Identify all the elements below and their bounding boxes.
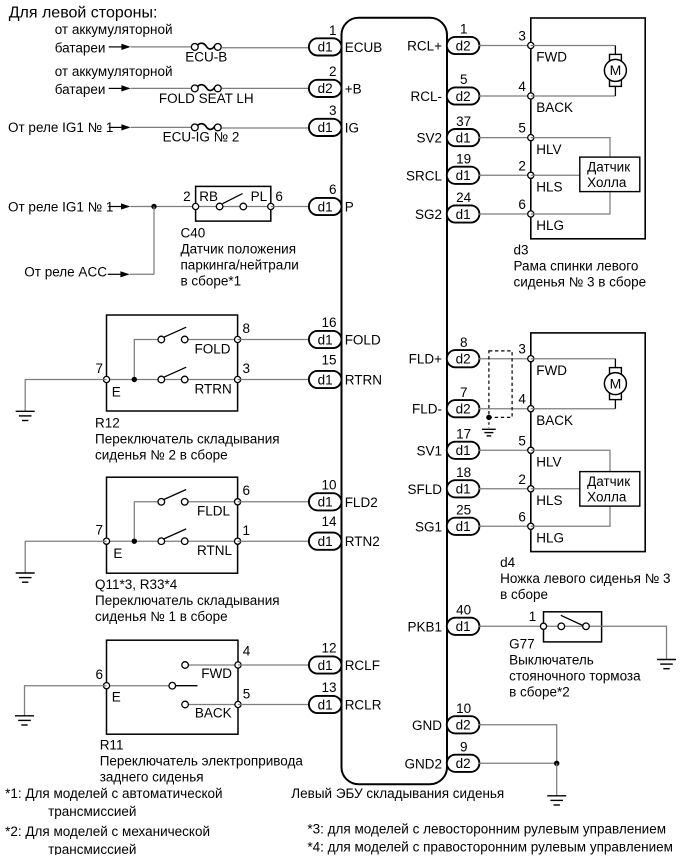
shield (dashed) around FLD+/FLD- — [489, 351, 512, 418]
fuse ECU-B — [191, 43, 221, 50]
svg-text:d1: d1 — [456, 130, 471, 145]
R12 ground wire — [25, 380, 106, 412]
svg-text:HLV: HLV — [536, 142, 561, 157]
svg-text:стояночного тормоза: стояночного тормоза — [509, 668, 641, 683]
G77 pin 1 node — [540, 623, 546, 629]
wire R12 pin3 to pin d1-15 — [238, 379, 309, 381]
svg-text:d1: d1 — [456, 168, 471, 183]
wire arrow to C40 pin 2 — [130, 206, 195, 208]
svg-text:от аккумуляторной: от аккумуляторной — [55, 64, 173, 79]
wire FLD+ to d4 pin 3 — [479, 358, 531, 360]
svg-text:2: 2 — [183, 189, 191, 204]
R11 wire FWD contact to pin 4 — [188, 664, 238, 666]
svg-text:От реле IG1 № 1: От реле IG1 № 1 — [8, 199, 113, 214]
svg-text:1: 1 — [460, 22, 468, 37]
d3 pin 6 node — [528, 211, 534, 217]
svg-text:2: 2 — [329, 64, 337, 79]
wire G77 to ground — [602, 626, 667, 659]
svg-text:RCL+: RCL+ — [407, 39, 442, 54]
R11 pin 6 node — [103, 683, 109, 689]
d4 pin 4 node — [528, 406, 534, 412]
wire SFLD to d4 pin 2 — [479, 488, 531, 490]
svg-text:14: 14 — [321, 514, 337, 529]
svg-text:17: 17 — [456, 427, 471, 442]
svg-text:Датчик: Датчик — [587, 474, 630, 489]
svg-text:FLD-: FLD- — [412, 402, 442, 417]
svg-text:2: 2 — [518, 158, 526, 173]
svg-text:25: 25 — [456, 503, 471, 518]
connector pin d2 (RCL+) — [447, 37, 480, 54]
wire Q11 pin1 to pin d1-14 — [238, 540, 309, 542]
svg-text:18: 18 — [456, 465, 471, 480]
svg-text:Холла: Холла — [587, 175, 627, 190]
connector pin d2 (GND) — [447, 716, 480, 733]
wire R12 pin8 to pin d1-16 — [238, 339, 309, 341]
Q11 FLDL blade — [164, 490, 186, 500]
svg-text:сиденья № 2 в сборе: сиденья № 2 в сборе — [95, 448, 228, 463]
svg-text:Ножка левого сиденья № 3: Ножка левого сиденья № 3 — [500, 571, 670, 586]
svg-text:2: 2 — [518, 472, 526, 487]
svg-text:FOLD SEAT LH: FOLD SEAT LH — [159, 91, 254, 106]
svg-text:15: 15 — [321, 352, 336, 367]
svg-text:7: 7 — [95, 523, 103, 538]
svg-text:E: E — [112, 384, 121, 399]
svg-text:6: 6 — [518, 509, 526, 524]
svg-text:HLS: HLS — [536, 180, 562, 195]
svg-text:FLDL: FLDL — [197, 504, 231, 519]
svg-text:RCL-: RCL- — [410, 89, 442, 104]
connector pin d1 (RCLF) — [309, 656, 342, 673]
wire C40 pin6 to pin d1-6 — [271, 206, 309, 208]
C40 contact PL — [240, 203, 247, 210]
connector pin d2 (+B) — [309, 80, 342, 97]
shield ground junction — [486, 415, 491, 420]
R12 wire FOLD contact to pin 8 — [188, 339, 238, 341]
svg-text:Переключатель складывания: Переключатель складывания — [95, 593, 280, 608]
ground (R12) — [16, 411, 35, 420]
svg-text:12: 12 — [321, 641, 336, 656]
shield ground stem — [488, 417, 490, 427]
svg-text:6: 6 — [518, 197, 526, 212]
svg-text:FOLD: FOLD — [195, 341, 231, 356]
svg-text:1: 1 — [243, 523, 251, 538]
svg-text:IG: IG — [345, 120, 359, 135]
svg-text:40: 40 — [456, 603, 471, 618]
connector pin d1 (SV2) — [447, 129, 480, 146]
wire SG2 to d3 pin 6 — [479, 213, 531, 215]
wire GND down to junction — [479, 725, 557, 764]
svg-text:GND2: GND2 — [404, 756, 442, 771]
battery feed arrow 2 — [109, 85, 131, 91]
G77 left contact — [558, 623, 565, 630]
wire R11 pin4 to pin d1-12 — [238, 664, 309, 666]
svg-text:d1: d1 — [456, 619, 471, 634]
Q11 junction — [132, 539, 137, 544]
svg-text:FOLD: FOLD — [345, 333, 381, 348]
seat leg d4 box — [531, 333, 645, 552]
svg-text:d2: d2 — [456, 402, 471, 417]
svg-text:ECUB: ECUB — [345, 40, 383, 55]
wire d3 pin2 to hall sensor left — [531, 174, 580, 176]
R12 junction — [132, 377, 137, 382]
svg-text:в сборе*1: в сборе*1 — [181, 273, 242, 288]
G77 switch blade — [561, 615, 583, 625]
svg-text:24: 24 — [456, 190, 472, 205]
R12 wire common to FOLD contact — [134, 340, 158, 380]
C40 pin 2 node — [193, 203, 199, 209]
Q11 wire RTNL contact to pin 1 — [188, 540, 238, 542]
svg-text:3: 3 — [329, 103, 337, 118]
hall sensor box (d4) — [580, 472, 640, 507]
svg-text:P: P — [345, 200, 354, 215]
R11 pin 4 node — [235, 662, 241, 668]
svg-text:M: M — [610, 375, 622, 391]
svg-text:d1: d1 — [318, 332, 333, 347]
ground (R11) — [15, 716, 34, 725]
R12 FOLD blade — [164, 327, 186, 337]
svg-text:6: 6 — [329, 182, 337, 197]
svg-text:батареи: батареи — [55, 82, 106, 97]
svg-text:SG2: SG2 — [415, 207, 442, 222]
connector pin d1 (RTN2) — [309, 533, 342, 550]
svg-text:BACK: BACK — [536, 100, 573, 115]
d3 pin 5 node — [528, 135, 534, 141]
fuse FOLD SEAT LH — [191, 85, 221, 92]
Q11 wire FLDL contact to pin 6 — [188, 501, 238, 503]
R12 pin 3 node — [235, 376, 241, 382]
svg-text:Выключатель: Выключатель — [509, 652, 594, 667]
svg-text:*1: Для моделей с автоматическ: *1: Для моделей с автоматической — [5, 786, 223, 801]
svg-text:RCLF: RCLF — [345, 658, 380, 673]
svg-text:d1: d1 — [456, 207, 471, 222]
wire through C40 — [196, 206, 271, 208]
R12 RTRN right contact — [181, 376, 188, 383]
wire junction down to ACC feed — [153, 207, 155, 275]
wire arrow2 to fuse FOLD SEAT LH — [131, 87, 191, 89]
connector pin d1 (RCLR) — [309, 696, 342, 713]
svg-text:Левый ЭБУ складывания сиденья: Левый ЭБУ складывания сиденья — [291, 786, 504, 801]
svg-text:E: E — [113, 546, 122, 561]
svg-text:d1: d1 — [318, 120, 333, 135]
svg-text:Переключатель складывания: Переключатель складывания — [95, 432, 280, 447]
wire GND2 to junction — [479, 762, 557, 764]
wire d4 pin5 to hall sensor top — [531, 450, 610, 471]
svg-text:d1: d1 — [318, 495, 333, 510]
Q11 RTNL right contact — [181, 538, 188, 545]
svg-text:HLS: HLS — [536, 493, 562, 508]
wire d3 pin4 to motor — [531, 95, 616, 97]
wire R11 pin5 to pin d1-13 — [238, 704, 309, 706]
d4 pin 5 node — [528, 447, 534, 453]
wire Q11 pin6 to pin d1-10 — [238, 501, 309, 503]
Q11 pin 1 node — [235, 538, 241, 544]
Q11 pin 6 node — [235, 499, 241, 505]
wire d4 pin6 to hall sensor bottom — [531, 506, 610, 526]
svg-text:FLD2: FLD2 — [345, 495, 378, 510]
Q11 wire pin7 to RTNL contacts — [107, 540, 189, 542]
connector pin d1 (SG2) — [447, 205, 480, 222]
svg-text:BACK: BACK — [195, 705, 232, 720]
svg-text:d2: d2 — [456, 38, 471, 53]
battery feed arrow 1 — [109, 44, 131, 50]
C40 pin 6 node — [268, 203, 274, 209]
R12 pin 8 node — [235, 336, 241, 342]
svg-text:FWD: FWD — [201, 666, 232, 681]
connector pin d1 (FLD2) — [309, 493, 342, 510]
svg-text:HLG: HLG — [536, 218, 564, 233]
R11 FWD contact — [182, 662, 189, 669]
d3 pin 3 node — [528, 42, 534, 48]
G77 right contact — [583, 623, 590, 630]
connector pin d1 (P) — [309, 198, 342, 215]
hall sensor box (d3) — [580, 157, 640, 192]
svg-text:5: 5 — [518, 433, 526, 448]
wire junction to ground — [556, 763, 558, 796]
svg-text:d1: d1 — [456, 519, 471, 534]
svg-text:10: 10 — [321, 477, 336, 492]
GND junction — [554, 761, 559, 766]
R11 wire pin6 to common contact — [107, 685, 170, 687]
wire RCL- to d3 pin 4 — [479, 95, 531, 97]
svg-text:PL: PL — [251, 189, 268, 204]
motor M (d3) — [604, 46, 626, 97]
C40 switch blade — [223, 194, 243, 204]
svg-text:d1: d1 — [318, 40, 333, 55]
svg-text:HLG: HLG — [536, 531, 564, 546]
svg-text:d4: d4 — [500, 555, 516, 570]
svg-text:от аккумуляторной: от аккумуляторной — [55, 22, 173, 37]
R12 wire pin7 to RTRN contacts — [107, 379, 189, 381]
svg-text:3: 3 — [518, 29, 526, 44]
connector pin d2 (RCL-) — [447, 87, 480, 104]
Q11 pin 7 node — [103, 538, 109, 544]
svg-text:SG1: SG1 — [415, 519, 442, 534]
wire FLD- to d4 pin 4 — [479, 408, 531, 410]
svg-text:SRCL: SRCL — [406, 168, 443, 183]
svg-text:SV1: SV1 — [416, 443, 442, 458]
svg-text:C40: C40 — [181, 225, 206, 240]
svg-text:d3: d3 — [514, 243, 529, 258]
R11 wire BACK contact to pin 5 — [188, 704, 238, 706]
svg-text:d1: d1 — [456, 443, 471, 458]
Q11 RTNL blade — [164, 529, 186, 539]
Q11 FLDL right contact — [181, 499, 188, 506]
Q11 FLDL left contact — [158, 499, 165, 506]
svg-text:в сборе*2: в сборе*2 — [509, 684, 570, 699]
svg-text:d2: d2 — [456, 756, 471, 771]
svg-text:*4: для моделей с правосторонн: *4: для моделей с правосторонним рулевым… — [307, 840, 673, 855]
wire SV2 to d3 pin 5 — [479, 137, 531, 139]
R12 FOLD left contact — [158, 336, 165, 343]
svg-text:10: 10 — [456, 701, 471, 716]
svg-text:PKB1: PKB1 — [407, 619, 442, 634]
svg-text:E: E — [112, 689, 121, 704]
d4 pin 2 node — [528, 486, 534, 492]
Q11 ground wire — [25, 541, 106, 573]
connector pin d1 (SFLD) — [447, 480, 480, 497]
svg-text:1: 1 — [529, 609, 537, 624]
svg-text:37: 37 — [456, 114, 471, 129]
svg-text:3: 3 — [243, 361, 251, 376]
svg-text:7: 7 — [95, 361, 103, 376]
connector pin d1 (FOLD) — [309, 331, 342, 348]
svg-text:4: 4 — [518, 392, 526, 407]
fold switch Q11/R33 box — [107, 477, 238, 573]
svg-text:RB: RB — [199, 189, 218, 204]
svg-text:RCLR: RCLR — [345, 698, 382, 713]
svg-text:d2: d2 — [456, 718, 471, 733]
svg-text:трансмиссией: трансмиссией — [48, 804, 136, 819]
svg-text:сиденья № 3 в сборе: сиденья № 3 в сборе — [514, 275, 647, 290]
ground (GND) — [547, 796, 566, 805]
svg-text:От реле IG1 № 1: От реле IG1 № 1 — [8, 120, 113, 135]
svg-text:RTRN: RTRN — [345, 373, 382, 388]
svg-text:батареи: батареи — [55, 40, 106, 55]
svg-text:5: 5 — [243, 687, 251, 702]
svg-text:M: M — [610, 62, 622, 78]
svg-text:8: 8 — [243, 321, 251, 336]
svg-text:R11: R11 — [100, 738, 124, 753]
ground (shield) — [482, 429, 496, 436]
svg-text:d1: d1 — [318, 534, 333, 549]
svg-text:13: 13 — [321, 680, 336, 695]
wire SG1 to d4 pin 6 — [479, 525, 531, 527]
svg-text:4: 4 — [518, 79, 526, 94]
connector pin d2 (GND2) — [447, 755, 480, 772]
wire through G77 — [544, 625, 602, 627]
wire d3 pin5 to hall sensor top — [531, 138, 610, 158]
svg-text:RTN2: RTN2 — [345, 534, 380, 549]
svg-text:3: 3 — [518, 342, 526, 357]
wire arrow1 to fuse ECU-B — [131, 46, 191, 48]
IG1 relay arrow — [109, 124, 131, 130]
svg-text:RTRN: RTRN — [195, 381, 232, 396]
wire PKB1 to G77 pin 1 — [479, 625, 544, 627]
connector pin d1 (RTRN) — [309, 371, 342, 388]
svg-text:d1: d1 — [318, 658, 333, 673]
wire fuse to pin d2-2 — [222, 87, 309, 89]
R11 blade (neutral) — [176, 685, 198, 687]
ground (G77) — [657, 660, 676, 669]
Q11 wire common to FLDL contact — [134, 502, 158, 541]
wire ACC arrow to junction — [130, 273, 154, 275]
svg-text:ECU-B: ECU-B — [185, 50, 227, 65]
svg-text:FWD: FWD — [536, 50, 567, 65]
svg-text:7: 7 — [460, 385, 468, 400]
svg-text:трансмиссией: трансмиссией — [48, 842, 136, 855]
connector pin d1 (SRCL) — [447, 167, 480, 184]
connector pin d1 (SG1) — [447, 518, 480, 535]
fold switch R12 box — [107, 315, 238, 411]
svg-text:*2: Для моделей с механической: *2: Для моделей с механической — [5, 824, 210, 839]
motor M (d4) — [604, 359, 626, 409]
svg-text:4: 4 — [243, 643, 251, 658]
svg-text:SV2: SV2 — [416, 131, 442, 146]
svg-text:Датчик положения: Датчик положения — [181, 241, 297, 256]
svg-text:1: 1 — [329, 23, 337, 38]
connector pin d1 (IG) — [309, 119, 342, 136]
R12 pin 7 node — [103, 376, 109, 382]
wire fuse to pin d1-3 — [222, 127, 309, 129]
svg-text:d1: d1 — [456, 482, 471, 497]
wire d4 pin3 to motor — [531, 358, 616, 360]
svg-text:*3: для моделей с левосторонни: *3: для моделей с левосторонним рулевым … — [307, 822, 666, 837]
connector pin d2 (FLD-) — [447, 400, 480, 417]
svg-text:RTNL: RTNL — [197, 543, 233, 558]
connector pin d1 (ECUB) — [309, 38, 342, 55]
svg-text:FLD+: FLD+ — [409, 352, 443, 367]
svg-text:6: 6 — [243, 483, 251, 498]
svg-text:5: 5 — [460, 72, 468, 87]
svg-text:6: 6 — [95, 667, 103, 682]
svg-text:Для левой стороны:: Для левой стороны: — [9, 5, 158, 22]
d3 pin 4 node — [528, 93, 534, 99]
R11 pin 5 node — [235, 701, 241, 707]
ground (Q11) — [16, 573, 35, 582]
svg-text:BACK: BACK — [536, 413, 573, 428]
svg-text:+B: +B — [345, 81, 362, 96]
wire d4 pin4 to motor — [531, 408, 616, 410]
R12 RTRN left contact — [158, 376, 165, 383]
wire arrow3 to fuse ECU-IG — [131, 126, 191, 128]
rear seat power switch R11 box — [107, 640, 239, 734]
IG1 relay arrow (P row) — [108, 203, 130, 209]
svg-text:FWD: FWD — [536, 363, 567, 378]
connector pin d2 (FLD+) — [447, 350, 480, 367]
connector pin d1 (PKB1) — [447, 618, 480, 635]
d4 pin 6 node — [528, 523, 534, 529]
svg-text:SFLD: SFLD — [407, 482, 442, 497]
R12 FOLD right contact — [181, 336, 188, 343]
ECU U1 box: Левый ЭБУ складывания сиденья — [342, 18, 448, 784]
svg-text:5: 5 — [518, 121, 526, 136]
R12 wire RTRN contact to pin 3 — [188, 379, 238, 381]
svg-text:Q11*3, R33*4: Q11*3, R33*4 — [95, 577, 178, 592]
wire d4 pin2 to hall sensor left — [531, 488, 580, 490]
park/neutral switch C40 box — [196, 186, 271, 221]
svg-text:G77: G77 — [509, 636, 535, 651]
svg-text:d1: d1 — [318, 199, 333, 214]
svg-text:6: 6 — [275, 189, 283, 204]
svg-text:GND: GND — [412, 718, 442, 733]
svg-text:Холла: Холла — [587, 489, 627, 504]
R11 common contact — [169, 682, 176, 689]
d4 pin 3 node — [528, 356, 534, 362]
svg-text:заднего сиденья: заднего сиденья — [100, 770, 204, 785]
connector pin d1 (SV1) — [447, 442, 480, 459]
svg-text:R12: R12 — [95, 416, 120, 431]
svg-text:d2: d2 — [456, 352, 471, 367]
svg-text:9: 9 — [460, 740, 468, 755]
wire fuse ECU-B to pin d1-1 — [222, 47, 309, 49]
wire SV1 to d4 pin 5 — [479, 449, 531, 451]
svg-text:Датчик: Датчик — [587, 159, 630, 174]
svg-text:d2: d2 — [318, 81, 333, 96]
seat back frame d3 box — [531, 18, 645, 239]
junction on P wire — [151, 204, 156, 209]
wire RCL+ to d3 pin 3 — [479, 45, 531, 47]
svg-text:d1: d1 — [318, 372, 333, 387]
svg-text:в сборе: в сборе — [500, 587, 548, 602]
parking brake switch G77 box — [544, 612, 602, 642]
R12 RTRN blade — [164, 367, 186, 377]
d3 pin 2 node — [528, 172, 534, 178]
wire SRCL to d3 pin 2 — [479, 174, 531, 176]
svg-text:d2: d2 — [456, 89, 471, 104]
svg-text:сиденья № 1 в сборе: сиденья № 1 в сборе — [95, 609, 228, 624]
Q11 RTNL left contact — [158, 538, 165, 545]
svg-text:HLV: HLV — [536, 455, 561, 470]
